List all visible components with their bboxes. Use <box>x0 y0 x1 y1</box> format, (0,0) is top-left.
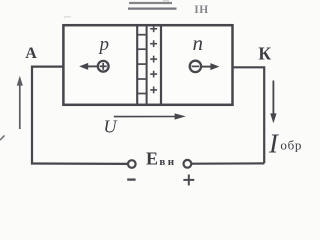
plus polarity sign <box>183 179 194 181</box>
svg-text:p: p <box>98 34 110 55</box>
cropped label fragment at left edge <box>0 136 5 141</box>
cropped figure fragment above: line 2 <box>128 8 177 10</box>
left wire: rectangle to corner and down <box>32 67 64 164</box>
junction line A (left boundary of depletion layer) <box>136 25 138 105</box>
svg-text:вн: вн <box>159 156 176 168</box>
faint speck above rectangle <box>64 16 71 19</box>
junction line B (middle) <box>146 25 148 105</box>
svg-text:обр: обр <box>280 138 302 153</box>
hole symbol: circle with plus <box>98 61 109 72</box>
hole drift arrow (pointing left) <box>86 65 97 67</box>
current arrow up (left side) <box>19 84 21 130</box>
svg-text:ІН: ІН <box>194 4 209 16</box>
minus charges column (rungs between A and B) <box>138 35 146 94</box>
bottom wire left segment <box>31 162 128 165</box>
electron symbol: circle with minus <box>190 61 201 72</box>
faint speck top edge <box>163 0 169 2</box>
voltage arrow (pointing right) <box>114 116 176 118</box>
junction line C (right boundary of depletion layer) <box>160 25 162 105</box>
svg-text:U: U <box>104 116 118 136</box>
plus charges column (between B and C) <box>150 25 157 93</box>
minus polarity sign <box>127 178 135 180</box>
svg-text:Е: Е <box>146 148 158 168</box>
cropped figure fragment above: line 1 <box>129 2 172 4</box>
battery left terminal (open circle) <box>128 160 136 168</box>
electron drift arrow (pointing right) <box>201 66 212 68</box>
current arrow down (right side, Iобр) <box>272 81 274 115</box>
paper background <box>0 0 307 190</box>
svg-text:А: А <box>25 45 37 62</box>
battery right terminal (open circle) <box>184 160 192 168</box>
bottom wire right segment <box>192 162 264 165</box>
svg-text:К: К <box>258 43 271 63</box>
right wire: up and to rectangle <box>233 67 264 163</box>
semiconductor body rectangle <box>63 25 232 105</box>
svg-text:n: n <box>193 31 204 55</box>
